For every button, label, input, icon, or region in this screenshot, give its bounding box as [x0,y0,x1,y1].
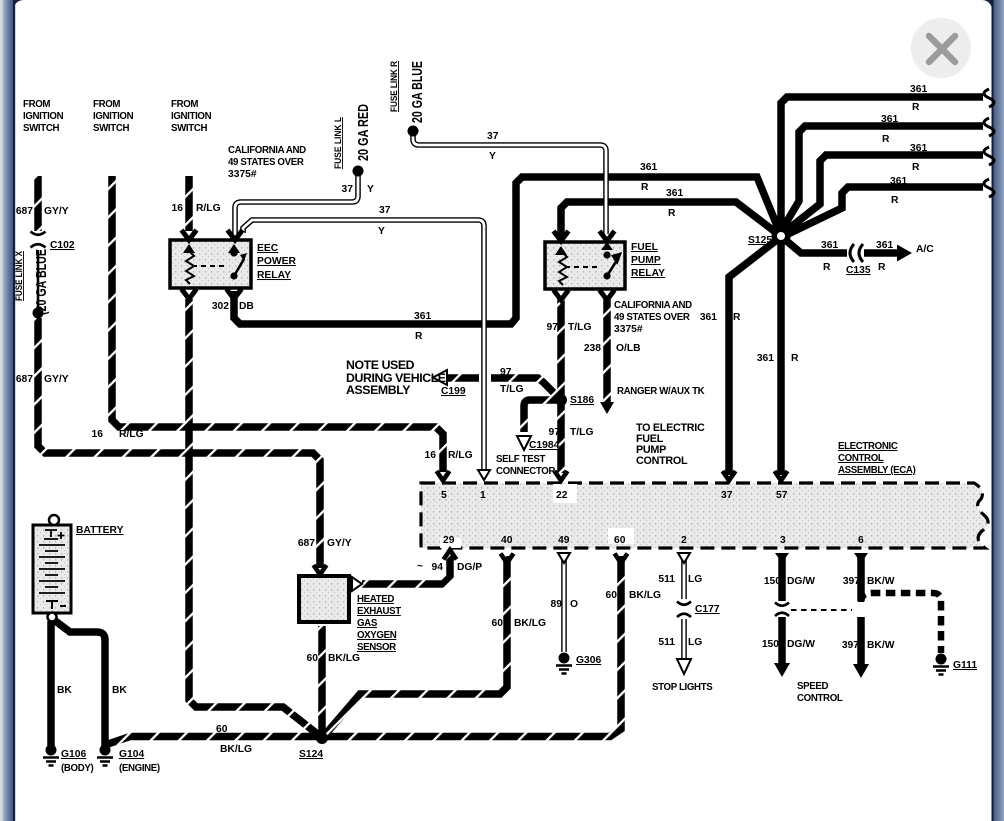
svg-text:49: 49 [558,535,570,546]
ECA connector box (electronic control assembly) [421,483,988,548]
arrow into ECA pin 37 [723,471,736,481]
arrow into EEC relay pin (16 R/LG) [182,230,197,240]
svg-text:687: 687 [16,374,33,385]
left dark page edge [13,0,15,821]
arrow end 238 O/LB [600,402,614,414]
EEC power relay box U1 [170,240,251,288]
svg-text:T/LG: T/LG [570,427,593,438]
svg-text:R/LG: R/LG [196,203,221,214]
fuse link X solid segment [37,250,40,308]
svg-text:C177: C177 [695,604,720,615]
arrow into ECA pin 29 [444,550,457,560]
svg-text:C102: C102 [50,240,75,251]
svg-text:O/LB: O/LB [616,343,641,354]
svg-text:(20 GA BLUE: (20 GA BLUE [33,249,50,315]
EEC relay dashed link [192,265,226,267]
svg-text:361: 361 [414,311,431,322]
splice node S125 [774,229,788,243]
ground G106 [46,745,57,756]
svg-text:511: 511 [658,574,675,585]
svg-text:SWITCH: SWITCH [23,123,59,134]
svg-text:60: 60 [606,590,618,601]
svg-text:BK: BK [112,685,127,696]
svg-text:60: 60 [492,618,504,629]
arrow out EEC relay bottom right [227,289,242,299]
svg-text:O: O [570,599,578,610]
wire 37 Y fuse link R to fuel pump relay (outline) [413,134,606,234]
svg-text:SENSOR: SENSOR [357,642,396,653]
svg-text:STOP LIGHTS: STOP LIGHTS [652,682,713,693]
svg-text:49 STATES OVER: 49 STATES OVER [614,312,690,323]
svg-text:37: 37 [487,131,499,142]
svg-text:G111: G111 [953,660,977,671]
svg-text:361: 361 [881,114,898,125]
svg-text:20 GA BLUE: 20 GA BLUE [409,61,426,123]
ground G104 [100,745,111,756]
svg-text:1: 1 [480,490,486,501]
svg-text:BATTERY: BATTERY [76,525,124,536]
svg-text:97: 97 [500,367,512,378]
svg-text:BK/LG: BK/LG [220,744,252,755]
svg-text:Y: Y [378,226,385,237]
svg-text:FUSE LINK R: FUSE LINK R [389,61,399,112]
svg-text:IGNITION: IGNITION [171,111,212,122]
svg-text:60: 60 [307,653,319,664]
arrow end speed control left [774,663,790,677]
svg-text:DG/P: DG/P [457,562,482,573]
wire 37 Y EEC relay to ECA pin 1 (outline) [243,220,484,471]
svg-text:2: 2 [681,535,687,546]
wire 60 BK/LG EEC relay to S124 [189,299,320,736]
svg-text:397: 397 [842,640,859,651]
battery top terminal circle [49,515,59,525]
wire 97 T/LG fuel pump relay to ECA pin 22 [557,299,565,473]
svg-text:S125: S125 [748,235,772,246]
svg-text:16: 16 [172,203,184,214]
arrow into ECA pin 5 [437,471,450,481]
arrow into fuel relay pin left [554,231,569,241]
svg-text:361: 361 [910,84,927,95]
svg-text:37: 37 [342,184,354,195]
svg-text:37: 37 [379,205,391,216]
arrow end speed control right [853,664,869,678]
arrow end A/C [897,245,912,262]
svg-text:R: R [882,134,890,145]
connector break on speed control wire [775,603,789,617]
EEC relay coil [186,252,194,284]
battery bottom terminal circle [48,613,57,622]
svg-text:37: 37 [721,490,733,501]
arrow out ECA pin 6 [854,553,868,563]
svg-text:361: 361 [890,176,907,187]
arrow out fuel relay bottom left [554,290,569,300]
wire to C1984 self test connector [524,400,556,432]
left blue bar [3,0,14,821]
wire 687 GY/Y to HEGO sensor [38,318,320,568]
connector break C135 [850,244,863,262]
svg-text:POWER: POWER [257,256,296,267]
ECA pin tab 29 [440,538,461,548]
ground G111 [936,654,947,665]
svg-text:RELAY: RELAY [257,270,291,281]
ECA pin tab 60 [608,528,634,544]
svg-text:20 GA RED: 20 GA RED [355,104,372,161]
svg-text:RELAY: RELAY [631,268,665,279]
connector break C177 [677,602,691,618]
wire S125 ray2 361 R [780,126,983,233]
continuation squiggle ray4 [984,179,994,197]
wire 60 BK/LG HEGO to S124 [318,626,326,734]
svg-text:IGNITION: IGNITION [23,111,64,122]
fuel pump relay internal arrows [555,246,567,255]
svg-text:NOTE USED: NOTE USED [346,358,415,372]
svg-text:BK/W: BK/W [867,640,895,651]
ECA dashed border [421,483,988,548]
svg-text:CONNECTOR: CONNECTOR [496,466,555,477]
fuel pump relay contact dots [603,251,610,258]
wire 302 DB / 361 R from EEC relay to S125 [234,177,780,324]
fuse link R dot [408,126,419,137]
svg-text:361: 361 [910,143,927,154]
right blue bar [994,0,1004,821]
svg-text:EXHAUST: EXHAUST [357,606,401,617]
svg-text:361: 361 [821,240,838,251]
svg-text:SELF TEST: SELF TEST [496,454,545,465]
svg-text:(BODY): (BODY) [61,763,93,774]
svg-text:302: 302 [212,301,229,312]
svg-text:97: 97 [547,322,559,333]
white cores of hollow wires [413,134,606,234]
svg-text:R: R [791,353,799,364]
svg-text:3375#: 3375# [614,324,643,335]
svg-text:150: 150 [764,576,781,587]
svg-text:R: R [733,312,741,323]
svg-text:361: 361 [640,162,657,173]
open arrow C1984 [517,436,531,450]
wire 37 Y fuse link L to EEC relay (outline) [235,175,358,234]
wire 238 O/LB from fuel pump relay [603,299,611,402]
EEC relay internal arrows [183,244,195,253]
arrow into ECA pin 1 open [478,470,490,480]
arrow into ECA pin 57 [775,471,788,481]
svg-text:687: 687 [16,206,33,217]
svg-text:Y: Y [489,151,496,162]
svg-text:S124: S124 [299,749,323,760]
arrow out ECA pin 3 [775,553,789,563]
svg-text:FUEL: FUEL [631,242,658,253]
fuse link L dot [353,166,364,177]
svg-text:T/LG: T/LG [568,322,591,333]
close button [911,18,971,78]
wire 397 BK/W ECA pin 6 to speed control [857,556,865,666]
svg-text:LG: LG [688,574,702,585]
svg-text:IGNITION: IGNITION [93,111,134,122]
svg-text:BK/LG: BK/LG [328,653,360,664]
svg-text:S186: S186 [570,395,594,406]
heated exhaust gas oxygen sensor box [299,576,349,622]
svg-text:361: 361 [876,240,893,251]
wire 150 DG/W ECA pin 3 to speed control [778,556,786,665]
svg-text:G306: G306 [576,655,601,666]
svg-text:~: ~ [417,561,423,572]
svg-text:SPEED: SPEED [797,681,828,692]
splice node S186 [555,394,567,406]
arrow into EEC relay pin (37 Y) [228,230,243,240]
wire S125 ray4 361 R [784,187,983,236]
svg-text:EEC: EEC [257,243,279,254]
wire S125 ray3 361 R [782,155,983,234]
svg-text:150: 150 [762,639,779,650]
wire 97 T/LG stub at C199 [448,374,479,382]
battery wire BK to G106 [47,621,55,746]
svg-text:687: 687 [298,538,315,549]
svg-text:238: 238 [584,343,601,354]
svg-text:R: R [912,102,920,113]
svg-text:ASSEMBLY (ECA): ASSEMBLY (ECA) [838,465,916,476]
battery box [33,525,71,613]
svg-text:DG/W: DG/W [787,639,815,650]
svg-text:GY/Y: GY/Y [44,374,69,385]
svg-text:CONTROL: CONTROL [838,453,884,464]
arrow end stop lights open [677,659,691,674]
svg-text:FROM: FROM [23,99,50,110]
arrow out ECA pin 49 open [558,553,570,563]
wire 16 R/LG from ignition to ECA pin 5 [112,176,443,472]
svg-text:CALIFORNIA AND: CALIFORNIA AND [614,300,692,311]
svg-text:16: 16 [425,450,437,461]
svg-text:94: 94 [432,562,444,573]
battery cells [39,545,65,593]
svg-text:3: 3 [780,535,786,546]
svg-text:60: 60 [216,724,228,735]
left gray hairline [0,0,3,821]
wire S125 to ECA pin 57 361 R [777,242,785,475]
svg-text:5: 5 [441,490,447,501]
svg-text:T/LG: T/LG [500,384,523,395]
svg-text:BK/LG: BK/LG [629,590,661,601]
svg-text:BK/LG: BK/LG [514,618,546,629]
svg-text:397: 397 [843,576,860,587]
svg-text:Y: Y [367,184,374,195]
svg-text:FROM: FROM [93,99,120,110]
svg-text:6: 6 [858,535,864,546]
svg-text:PUMP: PUMP [631,255,661,266]
svg-text:R: R [823,262,831,273]
continuation squiggle ray2 [984,118,994,136]
svg-text:R: R [891,195,899,206]
svg-text:R: R [912,162,920,173]
fuel pump relay dashed link [565,266,599,268]
wire S125 to A/C 361 R [783,238,898,253]
wire 60 BK/LG main run G104 to ECA pin 60 [108,556,621,744]
arrow end 687 into HEGO [314,565,327,575]
svg-text:FUSE LINK X: FUSE LINK X [14,251,24,301]
battery plus mark [44,530,65,539]
wire 361 R fuel pump relay to S125 [561,202,778,240]
svg-text:89: 89 [551,599,563,610]
svg-text:RANGER W/AUX TK: RANGER W/AUX TK [617,386,705,397]
fuel pump relay coil [559,253,567,285]
svg-text:16: 16 [92,429,104,440]
svg-text:R/LG: R/LG [448,450,473,461]
svg-text:R: R [668,208,676,219]
svg-text:40: 40 [501,535,513,546]
svg-text:49 STATES OVER: 49 STATES OVER [228,157,304,168]
svg-text:GY/Y: GY/Y [327,538,352,549]
arrow out ECA pin 40 [501,554,514,564]
svg-text:C135: C135 [846,265,871,276]
svg-text:G106: G106 [61,749,86,760]
wire 60 BK/LG ECA pin 40 to S124 [324,556,507,736]
svg-text:R/LG: R/LG [119,429,144,440]
svg-text:R: R [878,262,886,273]
svg-text:CONTROL: CONTROL [797,693,843,704]
svg-text:BK: BK [57,685,72,696]
connector break C102 [31,232,46,248]
svg-text:ASSEMBLY: ASSEMBLY [346,383,410,397]
dashed wire branch to G111 [861,593,941,653]
svg-text:A/C: A/C [916,244,934,255]
svg-text:ELECTRONIC: ELECTRONIC [838,441,898,452]
svg-text:22: 22 [556,490,568,501]
svg-text:3375#: 3375# [228,169,257,180]
splice node S124 [316,732,328,744]
svg-text:361: 361 [757,353,774,364]
battery minus T [46,601,66,609]
svg-text:GY/Y: GY/Y [44,206,69,217]
wire 97 T/LG branch to S186 [491,378,558,397]
svg-text:DG/W: DG/W [787,576,815,587]
svg-text:R: R [415,331,423,342]
arrow out EEC relay bottom left [182,289,197,299]
svg-text:LG: LG [688,637,702,648]
wire 89 O ECA pin 49 to G306 (outline) [561,556,567,652]
continuation squiggle ray3 [984,147,994,165]
wire 511 LG ECA pin 2 to stop lights (outline) [681,556,687,659]
svg-text:CONTROL: CONTROL [636,455,688,467]
fuel pump relay box U2 [545,242,625,289]
battery wire BK to G104 [54,620,105,746]
arrow into ECA pin 22 [555,471,568,481]
right dark page edge [992,0,994,821]
svg-text:GAS: GAS [357,618,378,629]
arrow out ECA pin 2 open [678,553,690,563]
wire 16 R/LG from ignition to EEC relay [185,176,193,231]
fuel pump relay blade [607,254,620,276]
svg-text:361: 361 [700,312,717,323]
svg-text:361: 361 [666,188,683,199]
svg-text:OXYGEN: OXYGEN [357,630,397,641]
open arrow C199 [433,370,447,385]
svg-text:60: 60 [614,535,626,546]
ground G306 [559,653,570,664]
arrow into fuel relay pin right (37 Y) [600,231,615,241]
svg-text:DB: DB [239,301,254,312]
svg-text:C199: C199 [441,386,466,397]
dashed link between speed control breaks [791,609,852,611]
svg-text:BK/W: BK/W [867,576,895,587]
svg-text:511: 511 [658,637,675,648]
svg-text:C1984: C1984 [529,440,560,451]
dark corner backing top [13,0,993,16]
svg-text:SWITCH: SWITCH [171,123,207,134]
svg-text:G104: G104 [119,749,144,760]
wire 687 GY/Y from ignition switch upper [34,176,42,231]
svg-text:29: 29 [443,535,455,546]
svg-text:R: R [641,182,649,193]
svg-text:57: 57 [776,490,788,501]
EEC relay blade [234,259,244,276]
svg-text:(ENGINE): (ENGINE) [119,763,160,774]
svg-text:FROM: FROM [171,99,198,110]
svg-text:97: 97 [549,427,561,438]
continuation squiggle ray1 [984,89,994,107]
svg-text:SWITCH: SWITCH [93,123,129,134]
wire S125 north ray to right edge 361 R [781,97,983,240]
wire 94 DG/P HEGO to ECA pin 29 [362,553,450,584]
svg-text:CALIFORNIA AND: CALIFORNIA AND [228,145,306,156]
wire S125 to ECA pin 37 361 R [729,239,778,475]
open connector arrow at HEGO right [352,577,362,591]
fuse link X dot [33,308,44,319]
svg-text:HEATED: HEATED [357,594,394,605]
arrow out ECA pin 60 [615,554,628,564]
EEC relay contact dots [230,249,237,256]
ECA pin tab 22 [553,484,577,503]
svg-text:FUSE LINK L: FUSE LINK L [333,117,343,169]
arrow out fuel relay bottom right [600,290,615,300]
